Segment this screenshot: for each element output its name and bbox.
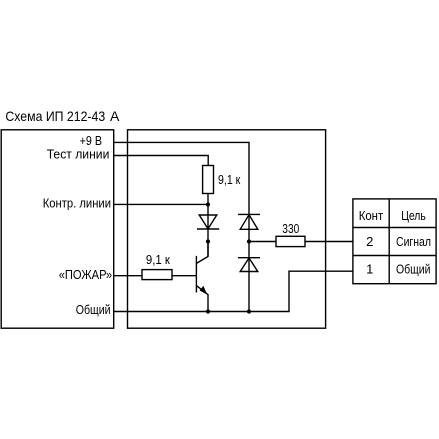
wire right branch through diodes [248,214,250,311]
resistor 9,1 к (line test, vertical) [203,166,214,194]
svg-text:Конт: Конт [359,208,384,223]
wire node to 330 resistor [249,241,276,243]
wire Общий [114,271,353,311]
svg-text:Сигнал: Сигнал [396,234,431,249]
transistor collector [196,242,208,264]
svg-text:9,1 к: 9,1 к [146,252,170,267]
svg-text:Схема ИП 212-43: Схема ИП 212-43 [5,108,105,124]
node junction (right diodes/330) [247,239,251,243]
svg-text:9,1 к: 9,1 к [218,172,241,187]
resistor 9,1 к (base, horizontal) [142,270,172,280]
wire Контр. линии [114,203,208,205]
diode VD upper right (pointing up) [238,214,260,229]
connector table column divider [388,199,390,284]
wire Тест линии [114,156,209,166]
node junction (resistor/контр./diode) [206,202,210,206]
svg-text:2: 2 [366,234,373,249]
svg-text:Контр. линии: Контр. линии [43,196,111,211]
node junction (emitter/Общий) [206,309,210,313]
left device box [1,130,114,328]
svg-text:Общий: Общий [76,302,111,317]
connector table header divider [353,227,436,229]
svg-text:330: 330 [282,221,299,236]
wire +9 В [114,142,249,214]
resistor 330 [276,236,305,246]
svg-text:Цель: Цель [401,208,426,223]
svg-text:Общий: Общий [396,261,431,276]
wire resistor to transistor base [172,275,196,277]
connector table frame [353,199,436,284]
transistor emitter with arrow [196,286,208,312]
node junction (lower diode/Общий) [247,309,251,313]
middle circuit box [128,130,326,328]
svg-text:А: А [110,108,120,124]
wire resistor bottom through diode to collector [207,194,209,257]
svg-text:«ПОЖАР»: «ПОЖАР» [59,267,112,282]
wire 330 to connector pin 2 [305,241,353,243]
connector table row divider [353,255,436,257]
diode VD lower right (pointing up) [238,258,260,272]
diode VD left (pointing down) [197,215,219,229]
svg-text:Тест линии: Тест линии [47,147,110,162]
node junction (diode/collector/330) [206,239,210,243]
wire «ПОЖАР» to resistor [114,275,142,277]
transistor base bar [195,256,197,293]
svg-text:1: 1 [366,261,373,276]
